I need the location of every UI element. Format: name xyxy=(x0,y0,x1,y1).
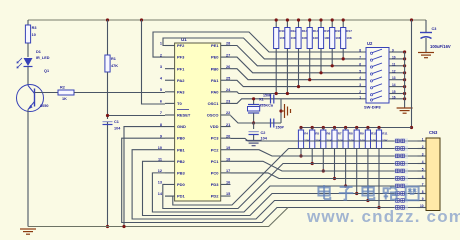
svg-text:RESET: RESET xyxy=(177,113,191,118)
svg-text:10K: 10K xyxy=(346,36,352,40)
svg-text:U2: U2 xyxy=(367,41,373,46)
svg-text:PA2: PA2 xyxy=(177,78,185,83)
svg-text:3: 3 xyxy=(359,83,361,87)
svg-text:13: 13 xyxy=(158,181,162,185)
svg-text:1K: 1K xyxy=(62,97,67,101)
svg-text:PB2: PB2 xyxy=(177,159,186,164)
svg-text:5: 5 xyxy=(359,69,361,73)
svg-text:PB3: PB3 xyxy=(177,170,186,175)
svg-text:11: 11 xyxy=(392,62,396,66)
svg-text:VDD: VDD xyxy=(210,124,219,129)
svg-text:2: 2 xyxy=(359,90,361,94)
svg-text:R4: R4 xyxy=(304,132,308,136)
svg-text:100uF/16V: 100uF/16V xyxy=(430,44,451,49)
svg-text:PD0: PD0 xyxy=(177,182,186,187)
svg-text:27: 27 xyxy=(226,53,230,57)
svg-text:1: 1 xyxy=(160,42,162,46)
svg-text:PC0: PC0 xyxy=(211,170,220,175)
svg-text:R6: R6 xyxy=(327,132,331,136)
svg-text:17: 17 xyxy=(226,169,230,173)
svg-text:104: 104 xyxy=(114,127,121,131)
svg-text:R11: R11 xyxy=(382,132,388,136)
svg-text:9: 9 xyxy=(422,197,424,201)
svg-text:12: 12 xyxy=(392,69,396,73)
svg-text:C1: C1 xyxy=(114,120,119,124)
svg-text:2: 2 xyxy=(422,145,424,149)
svg-text:PA1: PA1 xyxy=(211,78,219,83)
svg-text:18: 18 xyxy=(226,158,230,162)
svg-text:PB0: PB0 xyxy=(177,136,186,141)
svg-text:PD3: PD3 xyxy=(211,182,220,187)
svg-text:C3: C3 xyxy=(432,27,437,31)
svg-text:5: 5 xyxy=(422,168,424,172)
svg-text:7: 7 xyxy=(359,55,361,59)
svg-text:7: 7 xyxy=(160,111,162,115)
svg-text:R5: R5 xyxy=(315,132,319,136)
svg-text:T0: T0 xyxy=(177,101,182,106)
svg-text:PC3: PC3 xyxy=(211,136,220,141)
svg-text:www. cndzz. com: www. cndzz. com xyxy=(306,207,460,226)
svg-text:6: 6 xyxy=(422,175,424,179)
svg-text:Q1: Q1 xyxy=(44,69,49,73)
svg-text:15: 15 xyxy=(226,192,230,196)
svg-text:10: 10 xyxy=(32,33,36,37)
svg-text:R3: R3 xyxy=(32,26,37,30)
svg-text:6: 6 xyxy=(160,100,162,104)
svg-text:8: 8 xyxy=(422,190,424,194)
svg-text:CN3: CN3 xyxy=(429,130,438,135)
svg-text:R9: R9 xyxy=(360,132,364,136)
svg-text:22: 22 xyxy=(226,111,230,115)
svg-text:14: 14 xyxy=(392,83,396,87)
svg-text:R1: R1 xyxy=(111,57,116,61)
svg-text:PC2: PC2 xyxy=(211,147,220,152)
svg-text:10: 10 xyxy=(392,55,396,59)
svg-text:R7: R7 xyxy=(338,132,342,136)
svg-text:PA3: PA3 xyxy=(177,89,185,94)
svg-text:PF2: PF2 xyxy=(177,43,185,48)
svg-text:13: 13 xyxy=(392,76,396,80)
svg-text:R2: R2 xyxy=(60,86,65,90)
svg-text:26: 26 xyxy=(226,65,230,69)
svg-text:D1: D1 xyxy=(36,50,41,54)
svg-text:PC1: PC1 xyxy=(211,159,220,164)
svg-text:6: 6 xyxy=(359,62,361,66)
svg-text:1: 1 xyxy=(359,95,361,99)
svg-text:SW-DIP8: SW-DIP8 xyxy=(364,105,381,110)
svg-text:PA0: PA0 xyxy=(211,89,219,94)
svg-text:150P: 150P xyxy=(263,94,272,98)
svg-text:3: 3 xyxy=(160,65,162,69)
svg-text:PF3: PF3 xyxy=(177,55,185,60)
svg-text:1: 1 xyxy=(422,138,424,142)
svg-text:25: 25 xyxy=(226,76,230,80)
svg-text:9: 9 xyxy=(392,49,394,53)
svg-text:OSCO: OSCO xyxy=(207,113,219,118)
svg-text:3: 3 xyxy=(422,153,424,157)
svg-text:R11: R11 xyxy=(279,29,285,33)
svg-text:104: 104 xyxy=(261,137,268,141)
svg-text:8: 8 xyxy=(359,49,361,53)
svg-text:23: 23 xyxy=(226,100,230,104)
svg-text:PB1: PB1 xyxy=(177,147,186,152)
svg-text:PB0: PB0 xyxy=(211,66,220,71)
svg-text:7: 7 xyxy=(422,183,424,187)
svg-text:C2: C2 xyxy=(261,131,266,135)
svg-text:15: 15 xyxy=(392,90,396,94)
svg-text:PE1: PE1 xyxy=(211,43,219,48)
svg-text:PD2: PD2 xyxy=(211,194,220,199)
svg-text:R14: R14 xyxy=(313,29,319,33)
svg-text:28: 28 xyxy=(226,42,230,46)
svg-text:150P: 150P xyxy=(276,126,285,130)
svg-text:19: 19 xyxy=(226,146,230,150)
svg-text:16: 16 xyxy=(392,95,396,99)
svg-text:R8: R8 xyxy=(349,132,353,136)
svg-text:4: 4 xyxy=(422,160,424,164)
svg-text:8050: 8050 xyxy=(40,104,48,108)
svg-text:21: 21 xyxy=(226,123,230,127)
svg-text:PF1: PF1 xyxy=(177,66,185,71)
svg-text:PE0: PE0 xyxy=(211,55,219,60)
svg-text:GND: GND xyxy=(177,124,186,129)
svg-text:R17: R17 xyxy=(346,29,352,33)
svg-text:PD1: PD1 xyxy=(177,194,186,199)
svg-text:455KCa: 455KCa xyxy=(259,104,274,108)
svg-text:X1: X1 xyxy=(259,98,264,102)
svg-text:OSC1: OSC1 xyxy=(208,101,220,106)
svg-text:16: 16 xyxy=(226,181,230,185)
svg-text:5: 5 xyxy=(160,88,162,92)
svg-text:4: 4 xyxy=(359,76,361,80)
svg-text:47K: 47K xyxy=(111,64,118,68)
svg-text:20: 20 xyxy=(226,134,230,138)
svg-text:IR_LED: IR_LED xyxy=(36,56,50,60)
